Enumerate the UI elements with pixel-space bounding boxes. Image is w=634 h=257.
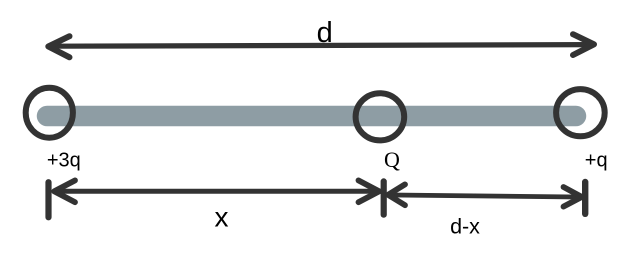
svg-text:+q: +q	[585, 149, 608, 171]
svg-text:d: d	[317, 17, 333, 49]
svg-text:Q: Q	[384, 147, 400, 172]
svg-text:d-x: d-x	[450, 215, 480, 239]
svg-text:x: x	[215, 201, 229, 232]
svg-text:+3q: +3q	[47, 149, 81, 171]
